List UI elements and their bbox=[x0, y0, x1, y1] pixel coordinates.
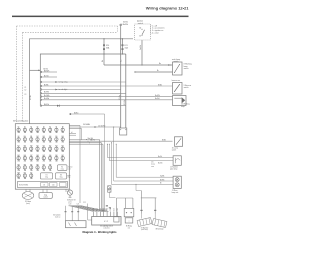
dashed frame right closure bbox=[117, 26, 119, 32]
fuse F33 19,167 bbox=[18, 164, 20, 170]
fuse F23 56,149 bbox=[55, 146, 57, 152]
svg-text:F36: F36 bbox=[36, 164, 39, 166]
svg-text:Bk/Rd: Bk/Rd bbox=[44, 104, 49, 106]
vertical bus wire x125 bbox=[125, 54, 127, 128]
outer dashed frame bbox=[17, 25, 118, 27]
fuse F28 38,158 bbox=[37, 155, 39, 161]
svg-text:Diagram 4 - Working lights: Diagram 4 - Working lights bbox=[83, 230, 118, 234]
svg-text:E1 E2 E3 E4: E1 E2 E3 E4 bbox=[19, 185, 28, 187]
svg-text:F18: F18 bbox=[24, 146, 27, 148]
feed wire fuse to work lamp switch bbox=[104, 64, 173, 66]
fuse F15 56,139 bbox=[55, 136, 57, 142]
svg-text:x: x bbox=[129, 220, 130, 222]
left drop wire bbox=[79, 126, 81, 204]
svg-text:C1: C1 bbox=[24, 87, 26, 89]
svg-text:30 Fuse/relay plate: 30 Fuse/relay plate bbox=[13, 119, 28, 122]
cluster feed rail bbox=[141, 197, 157, 199]
fuse F9 19,139 bbox=[18, 136, 20, 142]
relay K3 bbox=[56, 173, 67, 179]
connector rail wire row 6 bbox=[41, 92, 126, 94]
svg-text:F1: F1 bbox=[18, 127, 20, 129]
svg-text:0 1 2: 0 1 2 bbox=[104, 221, 108, 223]
fuse F41 31,176 bbox=[30, 173, 32, 179]
fuse F39 19,176 bbox=[18, 173, 20, 179]
svg-text:F31: F31 bbox=[55, 155, 58, 157]
in-line connector on feed bbox=[95, 126, 97, 128]
fuse F22 50,149 bbox=[49, 146, 51, 152]
svg-text:F5: F5 bbox=[43, 127, 45, 129]
fuse F17 19,149 bbox=[18, 146, 20, 152]
fuse F3 31,130 bbox=[30, 127, 32, 133]
ignition output wire bbox=[141, 40, 143, 65]
earth connector box bbox=[114, 217, 119, 222]
svg-text:Bk/Bu: Bk/Bu bbox=[74, 112, 78, 114]
svg-text:F2: F2 bbox=[24, 127, 26, 129]
connector pair tail stub bbox=[109, 192, 115, 197]
fuse F4 38,130 bbox=[37, 127, 39, 133]
svg-text:relay: relay bbox=[45, 177, 48, 179]
left tail lamp cluster bbox=[137, 218, 152, 227]
svg-text:to fog relay: to fog relay bbox=[59, 81, 68, 84]
svg-text:diag: diag bbox=[44, 194, 47, 196]
svg-text:F26: F26 bbox=[24, 155, 27, 157]
svg-text:58b: 58b bbox=[93, 208, 95, 211]
svg-text:F22: F22 bbox=[49, 146, 52, 148]
fuse F31 56,158 bbox=[55, 155, 57, 161]
connector rail wire row 8 bbox=[41, 99, 173, 101]
stalk drop connectors bbox=[65, 211, 67, 212]
svg-text:F37: F37 bbox=[43, 164, 46, 166]
svg-text:Br/Wh: Br/Wh bbox=[160, 179, 165, 181]
svg-text:15A: 15A bbox=[125, 47, 129, 50]
svg-text:conn: conn bbox=[151, 166, 154, 168]
svg-text:F40: F40 bbox=[24, 173, 27, 175]
svg-text:36 Relay: 36 Relay bbox=[126, 225, 132, 227]
svg-text:Bu/Wh: Bu/Wh bbox=[44, 95, 49, 97]
lighting column switch body bbox=[92, 217, 121, 226]
fusebox feed stub wires bbox=[69, 125, 80, 127]
svg-text:56a Wh: 56a Wh bbox=[88, 138, 94, 140]
fuse F27 31,158 bbox=[30, 155, 32, 161]
earth point E2 bbox=[67, 190, 72, 195]
cluster drop connectors bbox=[140, 210, 142, 211]
svg-text:Gy/Bk: Gy/Bk bbox=[105, 208, 107, 212]
svg-text:relay: relay bbox=[59, 177, 62, 179]
svg-text:Br/Bk: Br/Bk bbox=[44, 84, 48, 86]
svg-text:F13: F13 bbox=[43, 136, 46, 138]
svg-text:34 Column: 34 Column bbox=[53, 215, 60, 217]
stub wires below fusebox bbox=[25, 189, 27, 191]
svg-text:Br/Gn: Br/Gn bbox=[44, 75, 49, 77]
svg-text:F25: F25 bbox=[17, 155, 20, 157]
ignition switch D6 dashed box bbox=[135, 24, 151, 40]
svg-text:P43: P43 bbox=[117, 208, 119, 211]
svg-text:30 Rd/Bk: 30 Rd/Bk bbox=[83, 124, 90, 126]
svg-text:1.5 Bk: 1.5 Bk bbox=[124, 100, 126, 105]
connector pair C12 bbox=[108, 189, 111, 192]
svg-text:C10: C10 bbox=[52, 184, 55, 186]
relay K2 bbox=[58, 165, 68, 171]
fuse F18 25,149 bbox=[24, 146, 26, 152]
bus B junction fuse F20 bbox=[103, 53, 104, 54]
bundle connector ticks bbox=[106, 205, 108, 206]
switch module S9 bbox=[125, 218, 133, 223]
fuse F20 30A bbox=[103, 39, 105, 65]
svg-text:F20: F20 bbox=[36, 146, 39, 148]
svg-text:F29: F29 bbox=[43, 155, 46, 157]
svg-text:Gy/Bk: Gy/Bk bbox=[160, 176, 165, 178]
svg-text:56b Ye: 56b Ye bbox=[90, 140, 95, 142]
svg-text:relay: relay bbox=[67, 177, 70, 179]
fuse F26 25,158 bbox=[24, 155, 26, 161]
bus B junction fuse F21 bbox=[122, 53, 123, 54]
svg-text:1.5 Gy: 1.5 Gy bbox=[119, 95, 121, 100]
beacon switch S13 bbox=[173, 83, 183, 95]
svg-text:13 Rear: 13 Rear bbox=[172, 190, 178, 192]
fuse F30 50,158 bbox=[49, 155, 51, 161]
svg-text:12 Number: 12 Number bbox=[170, 166, 178, 168]
svg-text:F41: F41 bbox=[30, 173, 33, 175]
svg-text:F14: F14 bbox=[49, 136, 52, 138]
svg-text:C2: C2 bbox=[24, 89, 26, 91]
svg-text:beacon sw.: beacon sw. bbox=[172, 80, 181, 82]
svg-text:F7: F7 bbox=[56, 127, 58, 129]
svg-text:56a: 56a bbox=[97, 208, 99, 211]
rear lamp unit E23 bbox=[173, 176, 181, 188]
svg-text:lamp: lamp bbox=[181, 106, 185, 108]
svg-text:C22: C22 bbox=[83, 202, 86, 204]
svg-text:F10: F10 bbox=[24, 136, 27, 138]
battery feed wire bbox=[120, 26, 122, 39]
svg-text:C15: C15 bbox=[151, 161, 154, 163]
bus A wire from battery bbox=[30, 39, 134, 124]
svg-text:F32: F32 bbox=[62, 155, 65, 157]
fuse F1 19,130 bbox=[18, 127, 20, 133]
connector rail wire row 9 bbox=[41, 105, 126, 107]
svg-text:F21: F21 bbox=[43, 146, 46, 148]
svg-text:30A: 30A bbox=[106, 47, 110, 50]
svg-text:Wiring diagrams 12•21: Wiring diagrams 12•21 bbox=[146, 6, 189, 11]
svg-text:4-way: 4-way bbox=[151, 164, 155, 166]
svg-text:Bk: Bk bbox=[102, 60, 104, 62]
bundle drop verticals bbox=[99, 140, 101, 211]
svg-text:F27: F27 bbox=[30, 155, 33, 157]
svg-text:15a: 15a bbox=[110, 208, 112, 211]
svg-text:Bk/Ye: Bk/Ye bbox=[104, 208, 106, 212]
fuse F37 44,167 bbox=[43, 164, 45, 170]
bus B branch to connector rail bbox=[30, 69, 41, 71]
svg-text:F38: F38 bbox=[49, 164, 52, 166]
fan source connector row bbox=[69, 205, 82, 207]
svg-text:Br/Bk: Br/Bk bbox=[162, 140, 166, 142]
wire to rear lamp 2 bbox=[114, 127, 173, 181]
svg-text:4.0 Br: 4.0 Br bbox=[30, 95, 32, 100]
relay K1 bbox=[41, 173, 53, 179]
svg-text:F6: F6 bbox=[49, 127, 51, 129]
svg-text:Br/Wh: Br/Wh bbox=[44, 92, 49, 94]
fuse F10 25,139 bbox=[24, 136, 26, 142]
column switch pins bbox=[93, 212, 95, 217]
cluster entry stubs bbox=[141, 214, 143, 219]
svg-text:switch: switch bbox=[174, 60, 179, 63]
svg-text:(column): (column) bbox=[104, 228, 110, 230]
svg-text:C9: C9 bbox=[43, 184, 45, 186]
svg-text:32 Earth: 32 Earth bbox=[67, 198, 73, 201]
connector rail wire row 3 bbox=[41, 81, 126, 83]
svg-text:Br/Wh: Br/Wh bbox=[102, 208, 104, 212]
fuse F19 31,149 bbox=[30, 146, 32, 152]
fuse F36 38,167 bbox=[37, 164, 39, 170]
svg-text:31 Horn: 31 Horn bbox=[25, 200, 31, 203]
svg-text:Gn/Bk: Gn/Bk bbox=[140, 45, 142, 50]
flasher relay K5 bbox=[124, 208, 134, 216]
svg-text:F9: F9 bbox=[18, 136, 20, 138]
svg-text:C3: C3 bbox=[24, 94, 26, 96]
cluster riser branch bbox=[136, 184, 141, 190]
svg-text:38 Tail lamp: 38 Tail lamp bbox=[156, 229, 164, 231]
svg-text:11 Lamp: 11 Lamp bbox=[172, 148, 178, 150]
svg-text:Bu/Wh: Bu/Wh bbox=[155, 95, 160, 97]
fuse F35 31,167 bbox=[30, 164, 32, 170]
fuse F2 25,130 bbox=[24, 127, 26, 133]
svg-text:switch: switch bbox=[184, 67, 189, 70]
svg-text:31b: 31b bbox=[114, 208, 116, 211]
fusebox body bbox=[15, 124, 69, 190]
svg-text:F8: F8 bbox=[62, 127, 64, 129]
fuse F16 63,139 bbox=[62, 136, 64, 142]
fuse F20 38,149 bbox=[37, 146, 39, 152]
connector rail wire row 4 bbox=[41, 85, 173, 87]
stalk connector drops bbox=[65, 206, 67, 221]
fusebox bundle wires bbox=[69, 139, 99, 141]
working lamp relay K6 bbox=[120, 128, 127, 135]
fuse F38 50,167 bbox=[49, 164, 51, 170]
svg-text:K2: K2 bbox=[61, 166, 63, 168]
svg-text:C21: C21 bbox=[77, 204, 80, 206]
connector rail wire row 7 bbox=[41, 96, 173, 98]
fuse F21 44,149 bbox=[43, 146, 45, 152]
svg-text:F33: F33 bbox=[17, 164, 20, 166]
svg-text:F35: F35 bbox=[30, 164, 33, 166]
fuse F29 44,158 bbox=[43, 155, 45, 161]
stalk switch unit bbox=[66, 221, 87, 228]
svg-text:30: 30 bbox=[139, 28, 141, 30]
ignition switch contact bbox=[142, 30, 145, 35]
svg-text:F15: F15 bbox=[55, 136, 58, 138]
diagnostic socket X1 bbox=[39, 193, 52, 199]
in-line connector C5 bbox=[168, 64, 170, 66]
connector rail wire row 5 bbox=[41, 89, 121, 91]
svg-text:37 Number: 37 Number bbox=[141, 226, 149, 229]
fuse F32 63,158 bbox=[62, 155, 64, 161]
wire to number plate lamp bbox=[107, 144, 173, 157]
connector rail wire row 1 bbox=[41, 71, 57, 73]
fuse F13 44,139 bbox=[43, 136, 45, 142]
svg-text:F11: F11 bbox=[30, 136, 32, 138]
svg-text:F23: F23 bbox=[55, 146, 58, 148]
svg-text:Bu/Rd: Bu/Rd bbox=[44, 98, 49, 100]
fusebox connector strip bbox=[18, 182, 68, 188]
fuse F34 25,167 bbox=[24, 164, 26, 170]
bus A junction battery feed bbox=[120, 38, 121, 39]
wire to rear lamp 3 bbox=[112, 143, 174, 185]
fuse F12 38,139 bbox=[37, 136, 39, 142]
svg-text:wiper: wiper bbox=[67, 175, 71, 177]
svg-text:15 Gn/Rd: 15 Gn/Rd bbox=[98, 125, 105, 127]
wire to rear lamp 1 bbox=[116, 144, 173, 177]
flasher relay drop wires bbox=[116, 198, 118, 217]
fuse F25 19,158 bbox=[18, 155, 20, 161]
svg-text:F16: F16 bbox=[62, 136, 65, 138]
cluster rail riser bbox=[140, 191, 142, 198]
fuse F14 50,139 bbox=[49, 136, 51, 142]
fusebox aux stub rows bbox=[69, 133, 76, 135]
wire row y114 to column switch bbox=[70, 113, 72, 115]
svg-text:F17: F17 bbox=[17, 146, 20, 148]
svg-text:switch: switch bbox=[138, 22, 143, 25]
svg-text:F4: F4 bbox=[37, 127, 39, 129]
svg-text:Bu/Gn: Bu/Gn bbox=[158, 163, 163, 165]
svg-text:F12: F12 bbox=[36, 136, 39, 138]
drop vertical to column switch bbox=[88, 204, 92, 221]
fuse F11 31,139 bbox=[30, 136, 32, 142]
fuse F24 63,149 bbox=[62, 146, 64, 152]
svg-text:F34: F34 bbox=[24, 164, 27, 166]
svg-text:F3: F3 bbox=[30, 127, 32, 129]
header rule bbox=[12, 16, 189, 18]
svg-text:F28: F28 bbox=[36, 155, 39, 157]
svg-text:C20: C20 bbox=[69, 204, 72, 206]
number plate lamp E22 bbox=[173, 156, 181, 166]
svg-text:K1: K1 bbox=[46, 175, 48, 177]
fuse F6 50,130 bbox=[49, 127, 51, 133]
working lamp unit E20 bbox=[173, 96, 187, 106]
svg-text:to cab light: to cab light bbox=[59, 88, 68, 91]
inner dashed frame bbox=[23, 31, 118, 33]
fuse F8 63,130 bbox=[62, 127, 64, 133]
fuse F7 56,130 bbox=[55, 127, 57, 133]
side marker switch S14 bbox=[175, 137, 183, 147]
svg-text:15: 15 bbox=[139, 36, 141, 38]
feed wire to switch lower terminal bbox=[135, 71, 173, 73]
svg-text:Br/Bk: Br/Bk bbox=[158, 84, 162, 86]
svg-text:F39: F39 bbox=[17, 173, 20, 175]
svg-text:Bu: Bu bbox=[159, 63, 161, 65]
svg-text:F24: F24 bbox=[62, 146, 65, 148]
svg-text:relay: relay bbox=[61, 169, 64, 171]
fuse F5 44,130 bbox=[43, 127, 45, 133]
horn H1 bbox=[22, 192, 34, 200]
connector pair C11 bbox=[108, 186, 111, 189]
bus B wire bbox=[40, 54, 126, 106]
junction near switch bbox=[170, 64, 171, 65]
svg-text:Bk/Wh: Bk/Wh bbox=[44, 70, 49, 72]
svg-text:K3: K3 bbox=[60, 175, 62, 177]
svg-text:Bu/Rd: Bu/Rd bbox=[155, 98, 160, 100]
svg-text:switch: switch bbox=[184, 86, 189, 89]
svg-text:4 = start: 4 = start bbox=[152, 31, 159, 34]
connector rail wire row 2 bbox=[41, 76, 57, 78]
svg-text:F30: F30 bbox=[49, 155, 52, 157]
wire to number plate lamp 2 bbox=[109, 144, 173, 160]
working lamp switch S12 bbox=[173, 62, 183, 75]
cluster drop wires bbox=[141, 198, 143, 214]
fuse F21 15A bbox=[122, 39, 124, 54]
flasher relay feed rail bbox=[117, 197, 133, 199]
vertical bus wire x120 bbox=[120, 39, 122, 128]
svg-text:L54: L54 bbox=[100, 208, 102, 211]
svg-text:Bu/Ye: Bu/Ye bbox=[158, 156, 162, 158]
svg-text:S8: S8 bbox=[74, 200, 76, 202]
right tail lamp cluster bbox=[152, 219, 167, 228]
column switch feed fan bbox=[70, 206, 94, 212]
svg-text:flasher: flasher bbox=[68, 167, 73, 169]
svg-text:Br: Br bbox=[157, 69, 159, 72]
fuse F40 25,176 bbox=[24, 173, 26, 179]
bundle junction marks bbox=[86, 139, 87, 140]
svg-text:F19: F19 bbox=[30, 146, 33, 148]
